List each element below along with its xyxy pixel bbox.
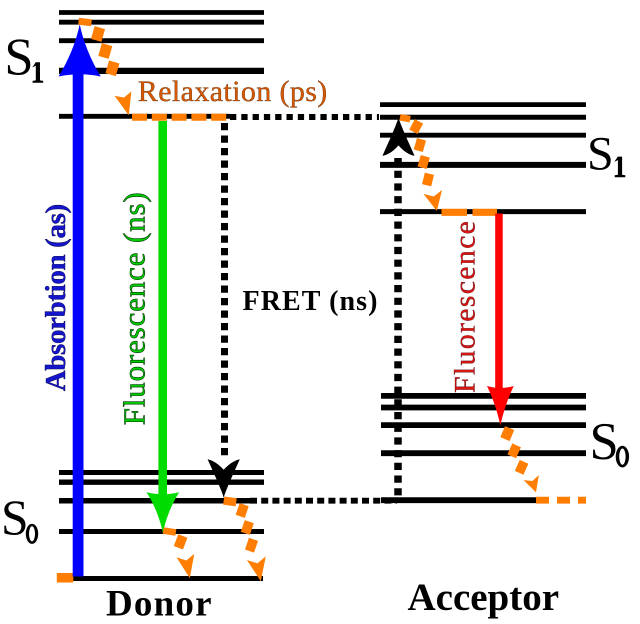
svg-text:Donor: Donor — [106, 584, 212, 624]
svg-text:S: S — [590, 413, 619, 471]
svg-text:Absorbtion (as): Absorbtion (as) — [40, 204, 72, 392]
svg-text:S: S — [587, 128, 614, 181]
svg-text:FRET (ns): FRET (ns) — [243, 286, 378, 317]
svg-text:S: S — [4, 29, 33, 87]
svg-text:Relaxation (ps): Relaxation (ps) — [138, 75, 327, 108]
svg-text:S: S — [1, 490, 29, 545]
svg-text:Fluorescence: Fluorescence — [449, 221, 482, 393]
svg-text:Acceptor: Acceptor — [408, 576, 560, 619]
svg-text:Fluorescence (ns): Fluorescence (ns) — [117, 192, 152, 425]
